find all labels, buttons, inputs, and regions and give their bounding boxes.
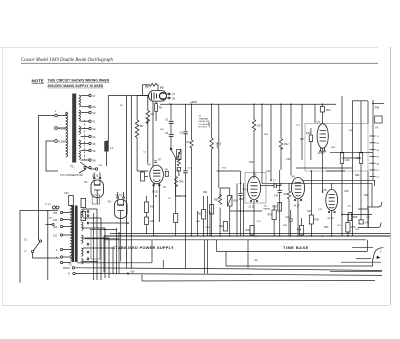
- V1 pin 33: [99, 177, 101, 179]
- svg-text:THIS CIRCUIT SHOWS WIRING WHEN: THIS CIRCUIT SHOWS WIRING WHEN: [48, 79, 110, 83]
- capacitor C40: [69, 196, 74, 206]
- wire y211 link: [230, 210, 262, 212]
- terminal tap 230: [60, 218, 62, 220]
- svg-text:32 33: 32 33: [92, 175, 99, 178]
- wire drop x138.5: [142, 171, 144, 172]
- wire V6 pin circle b: [300, 199, 302, 201]
- wire bus y266: [226, 251, 373, 266]
- svg-text:C13: C13: [266, 170, 271, 173]
- junction dot y211: [240, 210, 242, 212]
- terminal neutral: [73, 272, 75, 274]
- transformer T2 core: [72, 206, 74, 263]
- svg-text:R17: R17: [257, 125, 262, 128]
- wire R27 stem: [310, 128, 312, 160]
- capacitor C6: [169, 134, 174, 136]
- wire heater riser 1: [96, 209, 98, 280]
- wire S2 column mid: [170, 123, 172, 134]
- wire V4 pin circle b: [159, 184, 161, 186]
- wire V5 bottom lead: [253, 200, 255, 236]
- svg-text:V5: V5: [253, 172, 257, 176]
- junction dot rail x291: [290, 104, 292, 106]
- svg-text:27: 27: [172, 92, 175, 96]
- page right edge line: [390, 47, 392, 305]
- wire box lead: [145, 176, 148, 178]
- tube V7 grid bars: [320, 131, 327, 142]
- svg-text:C21: C21: [307, 210, 312, 213]
- wire heater horizontals: [85, 223, 129, 239]
- transformer T2 secondary winding 5: [82, 259, 84, 265]
- wire V9 pin circle a: [328, 211, 330, 213]
- wire C34 stem: [279, 170, 281, 236]
- wire x368 drop: [367, 101, 369, 228]
- terminal mains N: [55, 140, 58, 143]
- resistor box left of V4: [141, 172, 145, 181]
- resistor R14 body: [177, 150, 181, 160]
- wire top feed horizontal: [108, 95, 148, 97]
- svg-text:230: 230: [53, 219, 58, 222]
- wire right top corner bus: [367, 202, 382, 207]
- wire drop x342: [341, 96, 343, 152]
- junction dot b: [185, 195, 187, 197]
- svg-text:63V: 63V: [131, 272, 136, 274]
- tube V3 target C electrode: [160, 93, 165, 99]
- terminal connector pin b: [56, 206, 59, 209]
- wire R4 lower: [147, 118, 149, 163]
- resistor R8 zigzag: [150, 83, 159, 90]
- wire V3 left lead: [137, 95, 148, 97]
- capacitor C9: [183, 171, 187, 173]
- junction dot rail x322: [322, 104, 324, 106]
- transformer T1 secondary winding 3: [79, 126, 81, 134]
- wire T2 tap 6: [63, 256, 71, 258]
- wire T2 tap 200: [63, 226, 71, 228]
- terminal tap 200: [60, 225, 62, 227]
- wire crt tick B3: [370, 155, 376, 157]
- resistor R4 zigzag: [146, 110, 150, 123]
- terminal 30: [89, 111, 91, 113]
- svg-text:STABILISED POWER SUPPLY: STABILISED POWER SUPPLY: [113, 245, 174, 250]
- wire heater riser 4: [108, 238, 110, 278]
- wire drop x271: [270, 104, 272, 180]
- grid cap ticks above V4: [154, 161, 157, 163]
- terminal 38: [89, 159, 91, 161]
- junction dot y268.6: [127, 273, 129, 275]
- resistor R64 body: [223, 222, 227, 232]
- switch S2: [171, 150, 176, 158]
- wire V9 top lead: [331, 183, 333, 189]
- transformer T2 primary winding: [71, 206, 73, 261]
- wire crt tick B1: [370, 142, 376, 144]
- wire y171 segment: [217, 170, 346, 172]
- time base box left edge: [216, 240, 218, 252]
- svg-text:0.200V: 0.200V: [59, 140, 67, 144]
- wire V3 anode down to V4: [152, 101, 154, 167]
- wire rail segment right1: [352, 100, 368, 102]
- transformer T1 secondary winding 5: [79, 151, 81, 159]
- svg-text:V4: V4: [147, 163, 151, 167]
- component M10 body: [320, 107, 324, 113]
- wire N stub: [46, 224, 53, 226]
- terminal tap 250: [60, 211, 62, 213]
- resistor R95 body: [250, 226, 254, 236]
- transformer T1 secondary winding 1: [79, 96, 81, 107]
- svg-text:V7: V7: [317, 120, 321, 124]
- wire bus y281: [162, 260, 164, 268]
- wire T1 bottom diagonal to connector: [80, 162, 95, 169]
- wire drop x302: [301, 104, 303, 160]
- svg-text:R45: R45: [239, 198, 244, 201]
- svg-text:R68: R68: [297, 229, 302, 232]
- svg-text:M10: M10: [326, 109, 331, 112]
- junction dot rail x195: [191, 104, 193, 106]
- terminal 27: [89, 94, 91, 96]
- page top edge line: [0, 47, 378, 49]
- resistor R70 body: [346, 223, 350, 233]
- resistor R46 zigzag: [174, 177, 177, 188]
- resistor R9 beside V4: [165, 171, 168, 176]
- transformer T2 secondary winding 2: [82, 222, 84, 230]
- wire V6 pin circle a: [294, 199, 296, 201]
- wire C11 tail: [240, 195, 242, 236]
- wire drop x237: [236, 183, 238, 236]
- svg-text:R50: R50: [324, 226, 329, 229]
- wire N drop: [47, 210, 49, 280]
- svg-text:T.B: T.B: [264, 206, 268, 208]
- wire R41 stems: [146, 196, 148, 234]
- wire below C6: [170, 136, 172, 149]
- tube V3 target circle: [159, 92, 166, 99]
- transformer T2 secondary winding 1: [82, 209, 84, 217]
- wire V5 pin circle a: [250, 200, 252, 202]
- tube V4 grid bar 2: [153, 175, 160, 177]
- wire mid double line lower: [262, 183, 372, 207]
- wire V4 left stub: [137, 170, 148, 172]
- terminal 33: [89, 135, 91, 137]
- junction dot c: [240, 183, 242, 185]
- wire R5 branch: [136, 96, 138, 121]
- tube V3 grid bar 1: [151, 93, 153, 100]
- wire drop x291: [290, 104, 292, 175]
- wire S2 column: [170, 104, 172, 120]
- svg-text:V8: V8: [323, 188, 327, 192]
- wire terminal A to primary: [58, 127, 67, 129]
- wire T1 sec1 bottom lead: [81, 106, 89, 108]
- wire V1 cathode down: [96, 197, 98, 204]
- time base box right edge: [366, 240, 368, 252]
- wire y158 stub: [342, 157, 361, 159]
- wire R30 stem: [360, 101, 362, 220]
- wire mid line y168: [296, 167, 352, 169]
- wire T1 sec3 tap lead: [81, 136, 89, 138]
- tube V5 grid bar 3: [252, 194, 257, 197]
- wire drop x262: [261, 104, 263, 183]
- tube V6 envelope: [291, 177, 304, 198]
- svg-text:+450V: +450V: [190, 100, 198, 104]
- svg-text:R96: R96: [375, 108, 380, 110]
- wire R67 stem: [273, 205, 275, 236]
- svg-text:R77: R77: [300, 138, 305, 141]
- wire crt tick D2: [370, 176, 376, 178]
- capacitor C7 bars: [274, 183, 276, 188]
- capacitor C42: [81, 212, 86, 221]
- wire V2 cathode extension: [120, 219, 122, 262]
- svg-text:R12: R12: [187, 141, 192, 144]
- svg-text:R6: R6: [159, 106, 163, 110]
- wire drop x185 lower: [185, 134, 187, 170]
- terminal F8: [89, 166, 91, 168]
- wire T1 sec4 bottom lead: [81, 150, 89, 152]
- svg-text:250: 250: [53, 212, 58, 215]
- wire drop x197.5: [197, 211, 199, 236]
- wire y262 stub: [341, 261, 381, 263]
- svg-text:TO CONNECTOR: TO CONNECTOR: [60, 173, 83, 177]
- fuse F6 body: [375, 116, 382, 123]
- resistor R24 zigzag: [287, 191, 290, 236]
- svg-text:R34: R34: [273, 206, 278, 209]
- wire V4 pin circle a: [153, 184, 155, 186]
- svg-text:R64: R64: [219, 225, 224, 228]
- switch S2 contact: [170, 148, 172, 150]
- tube V9 grid bar 1: [329, 195, 335, 198]
- svg-text:R41: R41: [203, 191, 208, 194]
- wire bus y277: [142, 279, 375, 282]
- tube V6 grid bar 2: [295, 189, 302, 192]
- wire L1 lower lead: [107, 141, 109, 166]
- title underline: [21, 62, 378, 64]
- wire T1 sec1 top lead: [81, 95, 89, 97]
- terminal earth: [72, 267, 74, 269]
- wire drop x185 tail: [176, 173, 186, 268]
- wire earthy L loop: [20, 210, 58, 282]
- wire T2 tap 250: [63, 212, 71, 214]
- resistor box on x213: [210, 205, 214, 215]
- rectifier V1 cathode: [94, 190, 101, 197]
- wire C19 stem: [290, 210, 292, 236]
- svg-text:V3: V3: [160, 86, 164, 90]
- wire V3 lead 27: [167, 93, 171, 95]
- tube V3 grid bar 3: [156, 94, 158, 99]
- wire C7 leads: [261, 183, 281, 185]
- wire V2 heater drop 2: [118, 232, 120, 274]
- resistor R41 body: [145, 202, 149, 213]
- wire mains N lead: [46, 141, 58, 171]
- wire drop x207.5: [205, 196, 208, 274]
- stabilised supply box left edge: [103, 236, 105, 272]
- resistor R30 body: [359, 153, 362, 164]
- wire bus y268.6: [75, 268, 383, 271]
- wire +450V rail: [160, 103, 336, 105]
- junction dot e: [311, 235, 313, 237]
- resistor R13 zigzag: [210, 138, 213, 236]
- terminal tap 6: [60, 256, 62, 258]
- svg-text:110: 110: [53, 235, 58, 238]
- tube V6 grid bar 1: [295, 183, 302, 186]
- svg-text:L1: L1: [111, 146, 115, 150]
- wire y257 stub: [356, 258, 371, 260]
- capacitor C19 bars: [289, 219, 294, 221]
- wire R70 stem: [347, 215, 349, 237]
- connector arc big: [373, 248, 383, 259]
- svg-text:R5: R5: [140, 124, 144, 128]
- junction dots on bus: [155, 235, 349, 237]
- capacitor block C43: [91, 230, 100, 260]
- wire R29 column: [310, 171, 312, 236]
- junction dot l: [96, 261, 98, 263]
- wire R68 stem: [301, 218, 303, 226]
- wire V3 lead 28: [167, 97, 171, 99]
- junction dot rail x171: [170, 104, 172, 106]
- svg-text:R40: R40: [364, 194, 369, 197]
- svg-text:24V: 24V: [49, 218, 53, 220]
- svg-text:NOTE: NOTE: [32, 78, 44, 83]
- svg-text:34 35: 34 35: [152, 191, 159, 194]
- wire bus y272.2: [75, 274, 382, 276]
- tube V9 grid bar 3: [329, 206, 334, 209]
- terminal tap 0: [60, 248, 62, 250]
- wire V4 cathode down: [154, 183, 160, 236]
- tube V5 grid bar 2: [251, 189, 258, 192]
- wire drop x213: [211, 104, 213, 138]
- junction dot i: [341, 214, 343, 216]
- rectifier V2 anode bar: [118, 204, 125, 206]
- page left edge line: [2, 48, 4, 305]
- terminal 35: [89, 142, 91, 144]
- tube V6 grid bar 3: [296, 194, 301, 197]
- wire drop x185: [185, 104, 187, 131]
- component block under V1: [92, 195, 99, 204]
- wire y214.5 with arc: [341, 214, 372, 216]
- right bus vertical: [372, 100, 374, 180]
- capacitor C11: [238, 193, 242, 195]
- wire V3 right bottom drop: [169, 103, 171, 106]
- tube V9 grid bar 2: [329, 201, 335, 204]
- V2 pin 30: [117, 197, 119, 199]
- svg-text:+450V: +450V: [209, 121, 211, 128]
- box around V5: [245, 173, 266, 204]
- junction dot j: [127, 222, 129, 224]
- svg-text:V2: V2: [108, 200, 112, 204]
- wire drop x210: [209, 211, 211, 236]
- wire corner arc mid: [358, 209, 381, 228]
- terminal mains L: [55, 114, 58, 117]
- switch S1 terminal b: [31, 250, 33, 252]
- resistor R98 body: [348, 213, 352, 221]
- terminal T2 sec pins: [87, 211, 89, 213]
- wire V1 anode leads: [94, 173, 100, 186]
- capacitor C5: [169, 121, 174, 123]
- svg-text:TIME BASE: TIME BASE: [283, 245, 309, 250]
- wire V5 top lead: [253, 170, 255, 176]
- transformer T1 primary winding: [66, 112, 68, 157]
- wire mid line y152: [330, 151, 373, 153]
- junction dot d: [280, 104, 282, 106]
- resistor R44 zigzag upper: [177, 159, 180, 166]
- svg-text:R8: R8: [145, 85, 149, 89]
- resistor R67 body: [272, 210, 276, 220]
- wire T2 sec leads to heater risers: [83, 209, 113, 262]
- wire rail segment right2: [372, 103, 384, 105]
- screen box around V7: [305, 124, 368, 172]
- resistor R14 hatch: [177, 150, 181, 160]
- transformer T2 secondary winding 4: [82, 248, 84, 256]
- svg-text:R63: R63: [234, 200, 239, 203]
- wire terminal L to primary top: [58, 112, 67, 116]
- tube V7 envelope: [317, 124, 328, 149]
- component small box: [177, 168, 180, 172]
- tube V4 grid bar 3: [154, 179, 160, 181]
- junction dot rail x213: [211, 104, 213, 106]
- wire T1 sec4 top lead: [81, 143, 89, 145]
- terminal 28: [89, 106, 91, 108]
- transformer T2 secondary winding 3: [82, 235, 84, 243]
- component C46 body: [359, 220, 363, 224]
- wire V2 heater drop 1: [116, 228, 118, 274]
- resistor R22 zigzag: [279, 139, 282, 171]
- wire T1 sec3 top lead: [81, 128, 89, 130]
- svg-text:V6: V6: [292, 174, 296, 178]
- wire R6 stem: [155, 101, 157, 121]
- wire y265 stub: [330, 271, 382, 273]
- terminal 36: [89, 149, 91, 151]
- svg-text:V1: V1: [84, 180, 88, 184]
- resistor R31 body: [340, 153, 343, 164]
- wire heater riser 0: [93, 213, 95, 280]
- resistor R47 body: [174, 214, 178, 223]
- svg-text:R59: R59: [214, 199, 219, 202]
- wire crt tick B4: [370, 162, 376, 164]
- wire drop x243.5: [243, 183, 245, 236]
- resistor R59 zigzag: [218, 195, 221, 205]
- wire R44 top: [178, 152, 180, 176]
- transformer T1 secondary winding 2: [79, 110, 81, 121]
- svg-text:+450V: +450V: [217, 142, 219, 149]
- junction dot f: [270, 180, 272, 182]
- resistor R12 zigzag: [190, 140, 193, 236]
- wire HT pair 1: [125, 96, 127, 269]
- wire mid double line upper: [302, 180, 375, 186]
- wire feed riser A: [107, 96, 109, 142]
- svg-text:C46: C46: [365, 222, 370, 225]
- svg-text:R95: R95: [246, 229, 251, 232]
- wire T1 sec5 bottom lead: [81, 159, 89, 161]
- connector arrowhead: [376, 256, 380, 259]
- wire y247 stub: [352, 246, 373, 248]
- wire R24 top: [288, 183, 290, 191]
- wire V7 pin circle b: [324, 151, 326, 153]
- svg-text:C44: C44: [345, 159, 350, 162]
- resistor R29 body: [309, 215, 313, 224]
- wire HT pair 2: [130, 96, 132, 269]
- svg-text:200/250V MAINS SUPPLY IS USED: 200/250V MAINS SUPPLY IS USED: [48, 84, 104, 88]
- svg-text:28VAC: 28VAC: [63, 267, 70, 270]
- wire V2 anode leads: [118, 192, 124, 205]
- wire V9 bottom lead: [331, 211, 333, 236]
- svg-text:C16: C16: [286, 158, 291, 161]
- terminal F7: [84, 166, 86, 168]
- wire R62 stem: [203, 196, 205, 236]
- V1 pin 32: [93, 177, 95, 179]
- wire heater riser 5: [112, 248, 114, 274]
- wire R4 branch: [147, 96, 149, 111]
- svg-text:24 27: 24 27: [294, 204, 301, 207]
- wire drop x322: [322, 104, 324, 123]
- terminal mains tap A: [55, 127, 58, 130]
- terminal tap 24: [60, 261, 62, 263]
- bus line main: [104, 235, 390, 237]
- terminal 31: [89, 120, 91, 122]
- wire R8 top loop: [143, 85, 150, 96]
- wire drop x315: [314, 104, 316, 123]
